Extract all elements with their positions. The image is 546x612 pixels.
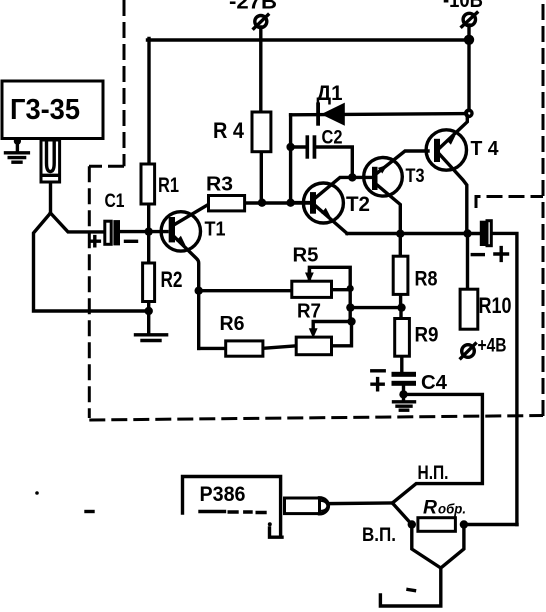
capacitor output C5 [472, 221, 507, 261]
capacitor C4 [372, 371, 448, 394]
resistor R2 [143, 263, 183, 302]
svg-text:T1: T1 [205, 219, 226, 241]
stray speck marks [35, 491, 414, 590]
node open circle at T4 collector [466, 110, 472, 116]
wire rail left drop to R1 [147, 39, 150, 166]
resistor R1 [141, 164, 179, 204]
wire vertical C2/diode bus [289, 115, 292, 203]
transistor T2 [303, 183, 370, 223]
erased text dashes under P386 [200, 512, 265, 513]
junction dot R8/R9 [397, 303, 405, 311]
wire T4 emitter node down to R10 [466, 234, 469, 290]
ground below C4 [394, 402, 415, 410]
wire C1 to T1 base [120, 230, 167, 233]
wire R9 bottom to C4 [400, 356, 403, 371]
wire R8 top lead [399, 234, 402, 257]
wire fork to Robr left [392, 503, 411, 525]
wire T4 emitter down [438, 152, 467, 234]
junction dot R7 wiper [347, 317, 355, 325]
wire plug to fork [329, 501, 392, 505]
wire diode line to node [291, 114, 467, 115]
svg-text:R9: R9 [415, 324, 439, 347]
svg-text:R5: R5 [293, 244, 319, 267]
generator probe plug [41, 140, 60, 182]
junction dot bus-R8 [346, 303, 354, 311]
svg-text:R: R [423, 498, 437, 519]
svg-text:Г3-35: Г3-35 [10, 94, 80, 126]
junction dot R5 right [347, 285, 354, 292]
label NP contact [418, 462, 449, 484]
junction dot bus/T2 base [286, 199, 294, 207]
junction dot T1 base [145, 227, 153, 235]
wire capsule bottom lead [380, 568, 440, 606]
wire T3 emitter down to rail [376, 184, 400, 234]
terminal +4V [461, 336, 507, 359]
potentiometer R7 [296, 300, 331, 355]
wire telephone capsule [412, 525, 464, 569]
wire -10V drop to node [467, 40, 470, 111]
svg-text:C2: C2 [322, 127, 343, 149]
diode D1 [316, 82, 345, 126]
wire T2 collector to T3 base [316, 177, 373, 197]
wire -27V terminal stub and R4 feed [259, 27, 262, 113]
svg-text:В.П.: В.П. [362, 524, 396, 546]
wire T2 emitter to rail [316, 206, 348, 234]
resistor Robr [418, 498, 466, 532]
capacitor C1 [90, 191, 136, 246]
svg-text:Д1: Д1 [317, 82, 343, 105]
wire emitter to R5 [199, 289, 292, 292]
dashed border right [542, 4, 545, 419]
svg-text:Н.П.: Н.П. [418, 462, 449, 484]
svg-text:обр.: обр. [438, 501, 466, 517]
svg-text:+4В: +4В [478, 336, 507, 357]
wire T2 base lead [291, 201, 310, 204]
svg-text:R 4: R 4 [213, 118, 245, 143]
wire T1 collector to R3 [175, 204, 209, 224]
wire output cap right lead down right side [491, 233, 517, 524]
junction dot Robr right [460, 520, 468, 528]
dashed border bottom [89, 416, 543, 421]
wire R8 bottom lead [399, 294, 402, 307]
svg-text:-27В: -27В [229, 0, 277, 14]
svg-text:R7: R7 [297, 300, 321, 323]
resistor R3 [206, 174, 245, 211]
wire top supply rail -27V [148, 38, 470, 41]
wire emitter rail to output cap [347, 232, 480, 235]
wire R7 wiper tie [313, 322, 351, 329]
svg-text:-10В: -10В [443, 0, 483, 12]
junction dot C4 [399, 390, 407, 398]
wire R4 bottom lead [260, 152, 263, 203]
svg-text:R10: R10 [479, 293, 512, 318]
wire C2 left lead [291, 145, 306, 148]
terminal -27V [229, 0, 277, 29]
svg-text:R3: R3 [206, 174, 233, 196]
transistor T4 [426, 130, 499, 170]
svg-text:R2: R2 [161, 267, 183, 292]
wire input fork to C1 [51, 213, 105, 232]
junction dot T1 emitter [195, 287, 203, 295]
junction dot T4 emitter rail [463, 229, 471, 237]
wire -10V terminal stub [467, 25, 470, 40]
wire T4 collector to node [438, 116, 468, 150]
potentiometer R5 [292, 244, 332, 298]
wire bus to R8/R9 junction [350, 306, 402, 309]
wire T3 collector to T4 base [376, 151, 428, 174]
transistor T1 [161, 212, 225, 251]
wire left ground return [34, 182, 149, 311]
wire to R6 [199, 347, 226, 350]
svg-text:C4: C4 [421, 372, 448, 394]
wire R9 top lead [399, 308, 402, 319]
svg-text:C1: C1 [105, 191, 125, 212]
junction dot C2 tap [286, 143, 294, 151]
svg-text:Р386: Р386 [200, 483, 246, 506]
svg-text:R1: R1 [158, 174, 179, 197]
wire R5 wiper tie [309, 267, 350, 288]
resistor R8 [393, 256, 438, 294]
junction dot emitter rail R8 [396, 230, 404, 238]
svg-text:T 4: T 4 [471, 138, 500, 160]
wire C4 node to relay NP contact [392, 394, 482, 503]
capacitor C2 [306, 127, 343, 159]
ground at G3-35 [6, 138, 29, 163]
wire feedback bus vertical [349, 287, 352, 322]
dashed border left lower [88, 166, 91, 418]
resistor R9 [395, 319, 439, 357]
dashed border step [89, 165, 124, 168]
dashed border left upper [123, 0, 126, 166]
junction dot Robr left [408, 520, 416, 528]
junction dot R2 bottom [145, 307, 153, 315]
wire C2 right lead down to T3 base node [316, 147, 352, 176]
wire C4 to ground [402, 386, 405, 400]
wire R1 to R2 through T1 base [147, 204, 150, 264]
resistor R6 [220, 312, 263, 356]
label VP contact [362, 524, 396, 546]
wire T1 emitter down [175, 237, 199, 348]
wire R7 right lead [332, 322, 352, 346]
dashed inner stub right [476, 197, 543, 209]
terminal -10V [443, 0, 483, 27]
wire R6 to R7 [263, 346, 297, 349]
resistor R4 [213, 112, 271, 152]
wire R2 bottom to ground [147, 302, 150, 333]
svg-text:R8: R8 [415, 268, 438, 291]
wire Robr right to output bus [464, 523, 517, 526]
ground below R2 [136, 335, 167, 341]
junction dot rail -10V [464, 35, 474, 45]
junction dot R4 bottom [258, 199, 266, 207]
recorder plug [285, 498, 329, 514]
junction dot T3 base node [348, 173, 356, 181]
svg-text:T2: T2 [346, 192, 370, 216]
svg-text:R6: R6 [220, 312, 245, 335]
transistor T3 [364, 158, 425, 197]
recorder P386 box [183, 477, 283, 538]
svg-text:Т3: Т3 [406, 165, 425, 187]
resistor R10 [460, 289, 511, 329]
generator G3-35 box [2, 81, 103, 139]
wire R3 output to T2 base [245, 201, 310, 204]
wire R5 right lead [332, 288, 351, 291]
